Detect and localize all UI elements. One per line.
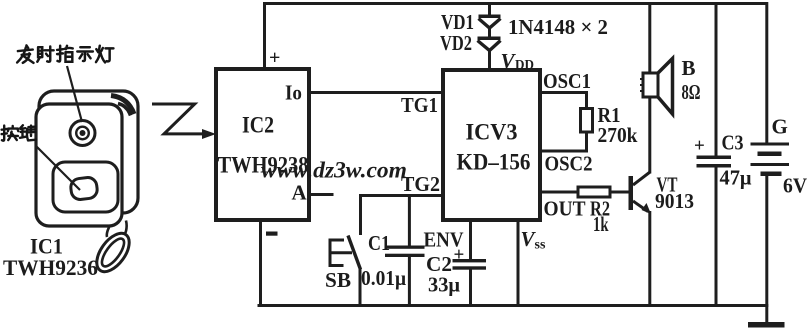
wire top rail [265, 2, 767, 5]
transistor VT collector line [633, 172, 650, 185]
svg-text:33μ: 33μ [428, 273, 460, 297]
remote ring outer [90, 228, 135, 278]
svg-text:47μ: 47μ [720, 166, 752, 190]
svg-text:KD–156: KD–156 [457, 150, 531, 175]
label 发射指示灯 [17, 45, 113, 62]
wire V+ drop to IC2 [263, 4, 266, 70]
svg-text:VD2: VD2 [440, 31, 472, 55]
resistor R1 [581, 109, 593, 133]
svg-text:1k: 1k [593, 212, 609, 236]
speaker B driver [643, 73, 658, 97]
svg-text:OSC2: OSC2 [545, 152, 593, 176]
svg-text:OUT: OUT [544, 197, 586, 221]
transistor VT emitter line with arrow [633, 201, 648, 212]
svg-text:TG1: TG1 [401, 93, 438, 117]
svg-text:9013: 9013 [655, 189, 694, 213]
speaker B horn [658, 59, 673, 115]
svg-text:IC2: IC2 [242, 113, 274, 138]
svg-text:Io: Io [285, 81, 302, 105]
wire Io to TG1 [309, 91, 443, 94]
wire bottom rail [259, 304, 767, 307]
svg-text:SB: SB [325, 268, 351, 292]
wire battery branch [765, 4, 768, 323]
svg-text:TG2: TG2 [401, 172, 440, 196]
svg-text:TWH9238: TWH9238 [218, 153, 309, 178]
label minus IC2 [266, 232, 278, 236]
zigzag transmit arrow [152, 104, 206, 134]
remote front face [36, 104, 122, 226]
svg-text:+: + [694, 136, 705, 157]
svg-text:270k: 270k [598, 123, 638, 147]
wire TG2 [361, 196, 444, 234]
diode VD1 [479, 15, 501, 29]
remote back outline [39, 91, 138, 213]
svg-text:1N4148 × 2: 1N4148 × 2 [508, 15, 608, 39]
resistor R2 [578, 187, 610, 197]
switch SB actuator [330, 239, 352, 268]
capacitor C2 plates [453, 259, 487, 262]
svg-text:A: A [292, 181, 308, 205]
svg-text:OSC1: OSC1 [543, 69, 591, 93]
leader line to LED [67, 66, 82, 122]
wire ENV / C2 branch [469, 220, 472, 306]
op block ICV3 box [443, 70, 540, 220]
svg-text:C1: C1 [368, 231, 390, 255]
remote button [70, 176, 98, 200]
leader line to button [36, 146, 80, 190]
battery G plates [751, 143, 790, 146]
svg-text:B: B [682, 56, 696, 80]
svg-text:TWH9236: TWH9236 [3, 255, 98, 280]
svg-text:C3: C3 [722, 131, 744, 155]
remote LED [70, 121, 95, 146]
remote neck lines [107, 221, 113, 238]
svg-text:G: G [772, 115, 788, 139]
wire C3 branch [715, 4, 718, 306]
remote corner wedge [111, 96, 134, 115]
speaker terminal ticks [640, 79, 643, 91]
wire A stub [309, 193, 332, 196]
wire IC2 minus drop [259, 220, 262, 306]
wire SB lower [359, 270, 362, 306]
wire C1 branch [408, 196, 411, 306]
svg-text:ICV3: ICV3 [466, 120, 518, 145]
wire speaker/collector branch [648, 4, 651, 173]
remote button panel [53, 162, 118, 212]
remote ring inner [98, 235, 128, 269]
wire OUT to R2 and base [540, 191, 630, 194]
diode VD2 [478, 37, 501, 51]
wire Vss drop [517, 220, 520, 306]
svg-text:+: + [454, 245, 465, 266]
wire emitter drop [648, 213, 651, 306]
svg-text:ss: ss [535, 238, 546, 253]
capacitor C3 plates [697, 156, 732, 160]
wire OSC1 to R1 [540, 93, 587, 109]
svg-text:+: + [269, 47, 280, 69]
svg-text:8Ω: 8Ω [682, 80, 701, 104]
ground bar [748, 322, 785, 328]
switch SB blade [348, 236, 361, 270]
svg-text:DD: DD [515, 57, 534, 72]
svg-text:6V: 6V [783, 174, 807, 198]
svg-text:0.01μ: 0.01μ [361, 266, 406, 290]
transistor VT base bar [629, 176, 634, 210]
IC2 box [216, 69, 309, 220]
wire diode branch segments [488, 4, 491, 71]
label 按键 [2, 125, 37, 140]
capacitor C1 plates [385, 246, 425, 249]
wire R1 to OSC2 [540, 132, 587, 151]
